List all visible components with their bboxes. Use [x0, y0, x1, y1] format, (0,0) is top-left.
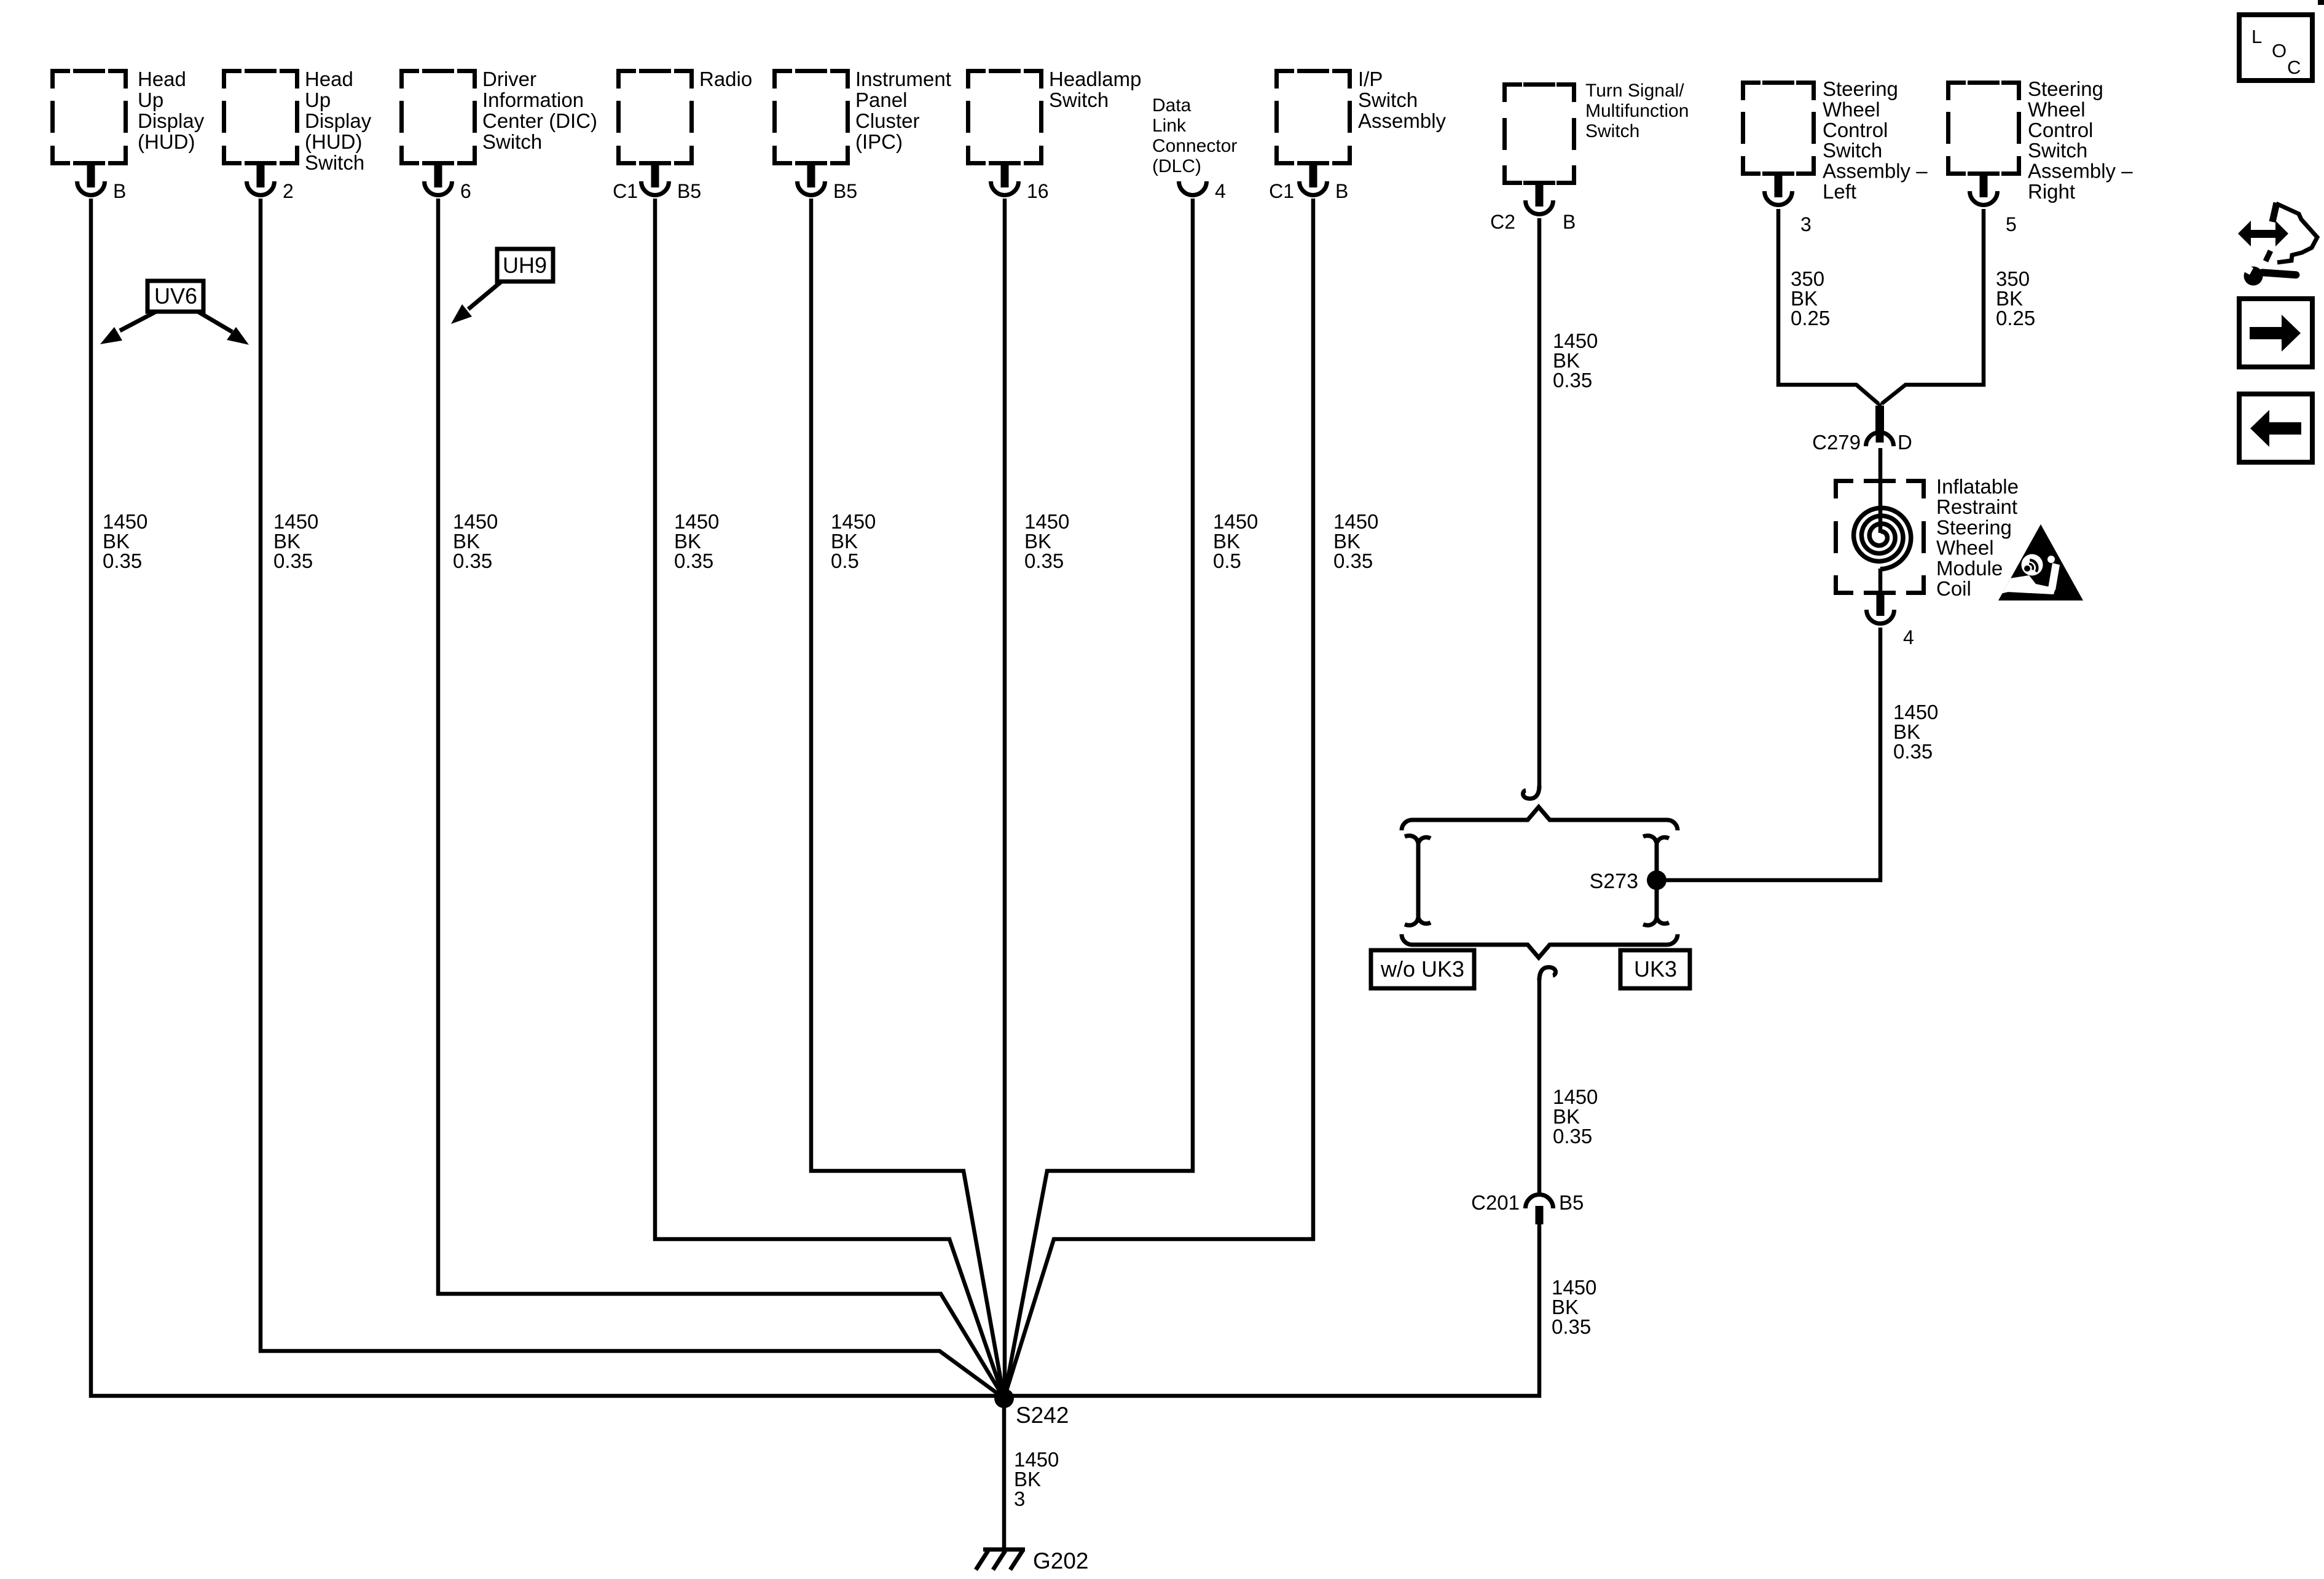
svg-text:D: D	[1898, 431, 1912, 454]
splice S242	[994, 1388, 1014, 1408]
svg-text:Turn Signal/: Turn Signal/	[1585, 81, 1684, 101]
connector pin 6 of DIC Switch	[424, 165, 471, 202]
svg-text:3: 3	[1800, 213, 1812, 235]
splice S273	[1647, 870, 1666, 890]
svg-text:I/P: I/P	[1358, 68, 1383, 90]
component box: Head Up Display (HUD)	[50, 69, 128, 165]
svg-text:Left: Left	[1823, 180, 1856, 203]
option label UK3 box	[1620, 950, 1690, 988]
connector pin B of HUD	[77, 165, 127, 202]
component box: HUD Switch	[222, 69, 299, 165]
connector pin B5 of IPC	[798, 165, 858, 202]
svg-text:16: 16	[1027, 180, 1049, 202]
svg-text:(IPC): (IPC)	[855, 130, 903, 153]
ground G202 symbol	[976, 1549, 1025, 1570]
backward reference arrow box icon	[2239, 394, 2312, 462]
svg-text:UK3: UK3	[1634, 956, 1677, 982]
connector pin 5 of SWC Right	[1970, 176, 2017, 235]
connector pin 2 of HUD Switch	[247, 165, 294, 202]
svg-text:C1: C1	[613, 180, 638, 202]
connector C279 pin D	[1866, 423, 1894, 446]
svg-text:O: O	[2272, 40, 2287, 61]
svg-text:Steering: Steering	[1936, 516, 2012, 538]
svg-text:4: 4	[1903, 626, 1914, 648]
option label w/o UK3 box	[1371, 950, 1474, 988]
svg-text:0.5: 0.5	[1213, 549, 1241, 572]
svg-text:0.35: 0.35	[103, 549, 142, 572]
svg-text:0.35: 0.35	[674, 549, 713, 572]
svg-text:0.25: 0.25	[1791, 307, 1830, 329]
svg-text:Module: Module	[1936, 557, 2003, 580]
svg-text:Inflatable: Inflatable	[1936, 475, 2019, 498]
svg-text:Driver: Driver	[482, 68, 536, 90]
option break curl at end of turn signal wire	[1523, 786, 1539, 798]
svg-text:Switch: Switch	[482, 130, 542, 153]
svg-text:0.35: 0.35	[1553, 369, 1592, 392]
LOC reference box icon	[2239, 15, 2312, 81]
svg-text:B5: B5	[833, 180, 857, 202]
svg-text:(HUD): (HUD)	[305, 130, 362, 153]
svg-text:0.35: 0.35	[1333, 549, 1373, 572]
component box: Radio	[616, 69, 694, 165]
svg-text:Head: Head	[138, 68, 186, 90]
wire 1450 BK 0.35 from HUD pin B to S242	[91, 199, 1004, 1396]
svg-text:C201: C201	[1471, 1191, 1520, 1214]
svg-text:S242: S242	[1016, 1403, 1069, 1428]
svg-text:Control: Control	[2028, 119, 2093, 141]
svg-text:(DLC): (DLC)	[1152, 156, 1201, 176]
svg-text:Head: Head	[305, 68, 353, 90]
option label UV6 box	[147, 281, 203, 312]
svg-text:0.35: 0.35	[1552, 1315, 1591, 1338]
clockspring coil spiral symbol	[1854, 508, 1911, 569]
option label UH9 box	[497, 249, 553, 282]
component box: Steering Wheel Control Switch Assembly - Left	[1741, 81, 1816, 176]
connector pin 4 of DLC	[1179, 180, 1226, 202]
junction stub above C279	[1878, 403, 1882, 411]
connector pin 4 of coil module	[1867, 595, 1914, 648]
svg-text:S273: S273	[1590, 870, 1638, 893]
svg-text:Switch: Switch	[1049, 89, 1109, 111]
component box: Headlamp Switch	[966, 69, 1043, 165]
svg-text:Radio: Radio	[699, 68, 752, 90]
svg-text:Cluster: Cluster	[855, 109, 920, 132]
option brace upper (harness split)	[1402, 807, 1678, 830]
svg-text:Wheel: Wheel	[1936, 537, 1994, 559]
connector pin 16 of Headlamp Switch	[991, 165, 1049, 202]
svg-text:UH9: UH9	[503, 253, 547, 278]
svg-text:2: 2	[283, 180, 294, 202]
UK3 branch bar with splice S273	[1643, 836, 1669, 926]
svg-text:6: 6	[460, 180, 471, 202]
svg-text:0.25: 0.25	[1996, 307, 2035, 329]
svg-text:Connector: Connector	[1152, 136, 1237, 156]
svg-text:Wheel: Wheel	[1823, 98, 1880, 120]
svg-text:Panel: Panel	[855, 89, 907, 111]
wire 1450 BK 0.35 from option merge down to C201	[1537, 978, 1542, 1193]
svg-text:Headlamp: Headlamp	[1049, 68, 1141, 90]
wire 350 BK 0.25 from SWC Left pin 3	[1778, 209, 1878, 404]
svg-text:Restraint: Restraint	[1936, 495, 2017, 518]
svg-text:0.5: 0.5	[831, 549, 859, 572]
option arrow UH9	[451, 282, 501, 324]
wire 1450 BK 0.5 from IPC to S242	[811, 199, 1004, 1398]
option break curl below merge	[1539, 967, 1556, 980]
forward reference arrow box icon	[2239, 299, 2312, 367]
svg-text:Switch: Switch	[1585, 121, 1639, 141]
option arrow UV6 right	[198, 312, 249, 345]
svg-text:0.35: 0.35	[1024, 549, 1064, 572]
svg-text:L: L	[2251, 26, 2262, 47]
svg-text:Display: Display	[138, 109, 205, 132]
svg-text:C1: C1	[1269, 180, 1294, 202]
wire 1450 BK 0.35 from C201 to S242	[1004, 1224, 1539, 1396]
svg-text:C2: C2	[1490, 211, 1515, 233]
connector C201 pin B5	[1526, 1195, 1553, 1225]
svg-text:Up: Up	[138, 89, 163, 111]
svg-text:Steering: Steering	[1823, 77, 1898, 100]
svg-text:B: B	[113, 180, 126, 202]
svg-text:w/o UK3: w/o UK3	[1380, 956, 1464, 982]
component box: Steering Wheel Control Switch Assembly - Right	[1946, 81, 2021, 176]
svg-text:0.35: 0.35	[1893, 740, 1933, 763]
svg-text:Switch: Switch	[305, 151, 364, 174]
connector C2 pin B of Turn Signal Switch	[1490, 185, 1576, 233]
wire 350 BK 0.25 from SWC Right pin 5	[1882, 209, 1984, 404]
component box: Inflatable Restraint Steering Wheel Module Coil	[1834, 479, 1926, 595]
wire from coil spiral to pin 4	[1878, 569, 1883, 595]
wire 1450 BK 0.35 from Headlamp Switch to S242	[1003, 199, 1007, 1398]
svg-text:C: C	[2287, 57, 2301, 78]
svg-text:Assembly –: Assembly –	[2028, 160, 2133, 183]
wire 1450 BK 0.5 from DLC to S242	[1004, 199, 1193, 1398]
wire 1450 BK 0.35 from HUD Switch pin 2 to S242	[261, 199, 1004, 1398]
svg-text:0.35: 0.35	[1553, 1125, 1592, 1148]
wire 1450 BK 3 from S242 to G202	[1002, 1398, 1007, 1549]
component box: Turn Signal/Multifunction Switch	[1502, 82, 1576, 185]
svg-text:Display: Display	[305, 109, 372, 132]
svg-text:Switch: Switch	[1823, 139, 1882, 162]
svg-text:0.35: 0.35	[273, 549, 313, 572]
wire 1450 BK 0.35 from coil pin 4 down to S273	[1666, 628, 1880, 880]
svg-text:(HUD): (HUD)	[138, 130, 195, 153]
svg-text:Information: Information	[482, 89, 584, 111]
airbag warning triangle icon	[1998, 524, 2083, 600]
wire from C279 into coil module	[1878, 448, 1883, 533]
svg-text:0.35: 0.35	[453, 549, 492, 572]
wire 1450 BK 0.35 from Turn Signal Switch down to option break	[1537, 218, 1542, 789]
svg-text:4: 4	[1215, 180, 1226, 202]
svg-text:Coil: Coil	[1936, 577, 1971, 600]
component box: Instrument Panel Cluster (IPC)	[772, 69, 850, 165]
svg-text:B: B	[1335, 180, 1348, 202]
w/o UK3 branch bar	[1405, 836, 1431, 926]
svg-text:Instrument: Instrument	[855, 68, 951, 90]
svg-text:Assembly: Assembly	[1358, 109, 1447, 132]
service/repair icon (double arrow, panel outline, wrench)	[2238, 203, 2317, 286]
svg-text:Switch: Switch	[2028, 139, 2087, 162]
page corner tick mark	[2318, 0, 2324, 5]
connector pin 3 of SWC Left	[1765, 176, 1812, 235]
connector C279 stub	[1875, 406, 1884, 433]
svg-text:3: 3	[1014, 1487, 1025, 1510]
svg-text:Link: Link	[1152, 116, 1187, 136]
svg-text:B5: B5	[677, 180, 701, 202]
component box: DIC Switch	[399, 69, 477, 165]
option brace lower (harness merge)	[1402, 934, 1678, 958]
wire 1450 BK 0.35 from Radio to S242	[655, 199, 1004, 1398]
wire 1450 BK 0.35 from I/P Switch to S242	[1004, 199, 1313, 1398]
svg-text:B5: B5	[1559, 1191, 1584, 1214]
svg-text:Switch: Switch	[1358, 89, 1418, 111]
svg-text:Multifunction: Multifunction	[1585, 101, 1689, 121]
svg-text:5: 5	[2006, 213, 2017, 235]
svg-text:Steering: Steering	[2028, 77, 2103, 100]
svg-text:Center (DIC): Center (DIC)	[482, 109, 597, 132]
connector C1 pin B of I/P Switch Assembly	[1269, 165, 1348, 202]
svg-text:Control: Control	[1823, 119, 1888, 141]
svg-text:Wheel: Wheel	[2028, 98, 2086, 120]
connector C1 pin B5 of Radio	[613, 165, 701, 202]
option arrow UV6 left	[100, 312, 156, 344]
wire 1450 BK 0.35 from DIC Switch pin 6 to S242	[438, 199, 1004, 1398]
svg-text:B: B	[1563, 211, 1576, 233]
svg-text:UV6: UV6	[154, 283, 197, 309]
component box: I/P Switch Assembly	[1274, 69, 1352, 165]
svg-text:Right: Right	[2028, 180, 2075, 203]
svg-text:Data: Data	[1152, 95, 1191, 116]
svg-text:G202: G202	[1033, 1548, 1089, 1573]
svg-text:C279: C279	[1812, 431, 1861, 454]
svg-text:Assembly –: Assembly –	[1823, 160, 1928, 183]
svg-text:Up: Up	[305, 89, 331, 111]
